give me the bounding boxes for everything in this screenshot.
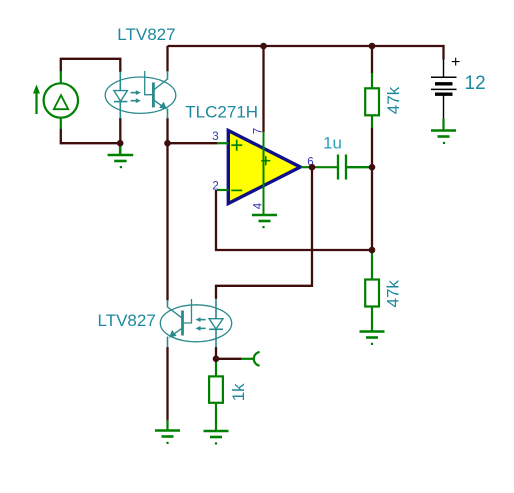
resistor R2 47k body: [365, 280, 379, 307]
battery B1 bottom lead: [443, 95, 445, 119]
svg-text:12: 12: [465, 73, 486, 94]
wire opto2 cathode to node: [215, 347, 217, 359]
svg-text:47k: 47k: [384, 86, 403, 114]
battery B1 plate 2: [435, 82, 453, 85]
optocoupler OK1 LTV827 top: ellipse: [105, 77, 176, 113]
svg-text:47k: 47k: [384, 280, 403, 308]
junction node rail-R1: [369, 43, 376, 50]
svg-text:1k: 1k: [229, 383, 248, 401]
battery B1 plate 1: [431, 76, 457, 78]
svg-text:4: 4: [252, 202, 264, 209]
current source I1 triangle: [54, 95, 68, 109]
open end connector arc: [254, 352, 260, 366]
wire opto1 emitter to node: [166, 118, 168, 143]
OK2 collector lead: [167, 300, 169, 308]
junction node feedback-R2: [369, 247, 376, 254]
OK2 emitter lead: [167, 337, 169, 348]
current source I1 top pin: [60, 71, 62, 84]
wire output node to opto2 anode: [216, 167, 312, 299]
capacitor C1 left plate: [337, 155, 339, 180]
capacitor C1 right plate: [345, 155, 347, 180]
resistor R1 47k body: [365, 88, 379, 115]
current source I1 arrow: [35, 92, 37, 114]
OK1 LED cathode bar: [114, 101, 128, 103]
OK2 phototransistor bar: [181, 311, 184, 336]
wire node to open end: [216, 358, 242, 360]
battery B1 top lead: [443, 59, 445, 77]
svg-text:7: 7: [252, 128, 264, 134]
svg-text:+: +: [451, 54, 460, 71]
OK2 LED cathode bar: [209, 328, 223, 330]
wire feedback row to pin2: [216, 190, 372, 250]
OK1 LED cathode lead: [119, 102, 121, 119]
ground under op-amp pin4: [252, 215, 277, 221]
OK2 base line: [183, 299, 192, 323]
ground under opto2 emitter: [166, 420, 168, 430]
resistor R3 1k bottom lead: [215, 403, 217, 431]
OK1 LED anode lead: [119, 72, 121, 91]
wire opto2 emitter down: [166, 347, 168, 421]
optocoupler OK2 LTV827 bottom: ellipse: [160, 305, 231, 342]
OK2 collector diagonal: [168, 307, 182, 318]
current source I1 bottom pin: [60, 118, 62, 130]
OK2 emitter diagonal: [171, 328, 182, 336]
op-amp minus input mark: [231, 189, 242, 191]
wire top rail net V+: [168, 46, 444, 60]
ground under R3: [204, 431, 229, 437]
wire opto1 collector from rail: [166, 46, 168, 72]
current source I1 circle: [44, 83, 78, 117]
OK1 LED triangle: [114, 91, 128, 102]
ground under battery: [442, 119, 444, 131]
wire R1 bottom to cap node: [371, 128, 373, 168]
resistor R1 47k bottom lead: [371, 115, 373, 128]
wire current source top loop: [61, 59, 121, 72]
op-amp pin7/pin4 vertical: [263, 132, 265, 215]
battery B1 plate 3: [431, 88, 457, 90]
wire R1 top: [371, 46, 373, 74]
junction node cap-R1-R2: [369, 164, 376, 171]
wire emitter node to pin3: [168, 142, 218, 144]
resistor R3 1k body: [209, 376, 223, 402]
OK2 LED anode lead: [215, 299, 217, 319]
OK1 emitter diagonal: [154, 100, 165, 108]
resistor R2 47k top lead: [371, 251, 373, 280]
junction node source-LED1-gnd: [117, 140, 124, 147]
OK1 emitter lead: [167, 109, 169, 119]
OK1 light arrow 2: [131, 100, 137, 102]
op-amp pin2 stub: [217, 189, 229, 191]
resistor R3 1k top lead: [215, 359, 217, 376]
svg-text:3: 3: [212, 131, 218, 143]
op-amp plus input mark: [231, 140, 242, 151]
capacitor C1 right lead: [347, 166, 370, 168]
OK2 light arrow 2: [199, 327, 205, 329]
wire current source bottom loop: [61, 129, 120, 144]
op-amp pin3 stub: [217, 142, 229, 144]
OK1 light arrow 1: [131, 92, 137, 94]
wire LED1 cathode to gnd node: [119, 118, 121, 143]
OK2 LED triangle: [209, 319, 223, 329]
OK2 light arrow 1: [199, 319, 205, 321]
ground under source node: [108, 144, 134, 161]
open end stub: [241, 358, 253, 360]
svg-text:LTV827: LTV827: [117, 25, 175, 44]
battery B1 plate 4: [435, 92, 453, 95]
svg-text:LTV827: LTV827: [98, 311, 156, 330]
op-amp U1 TLC271H triangle: [228, 131, 300, 204]
svg-text:2: 2: [212, 181, 218, 193]
op-amp pin6 output stub: [301, 166, 337, 168]
wire pin7 drop: [262, 46, 264, 132]
junction node emitter-pin3: [164, 140, 171, 147]
resistor R2 47k bottom lead: [371, 307, 373, 332]
OK1 collector diagonal: [154, 79, 167, 90]
wire cap node down to feedback row: [371, 167, 373, 250]
junction node opamp-out: [309, 164, 316, 171]
OK1 base line: [145, 71, 154, 95]
svg-text:TLC271H: TLC271H: [185, 103, 258, 122]
OK1 collector lead: [167, 71, 169, 80]
junction node cathode2-1k: [213, 356, 220, 363]
junction node rail-pin7: [260, 43, 267, 50]
op-amp middle plus mark: [261, 156, 270, 165]
OK1 phototransistor bar: [152, 83, 155, 108]
resistor R1 47k top lead: [371, 73, 373, 88]
ground under R2: [360, 332, 385, 338]
svg-text:1u: 1u: [323, 134, 342, 153]
wire emitter node down to opto2 collector: [166, 143, 168, 300]
OK2 LED cathode lead: [215, 329, 217, 347]
